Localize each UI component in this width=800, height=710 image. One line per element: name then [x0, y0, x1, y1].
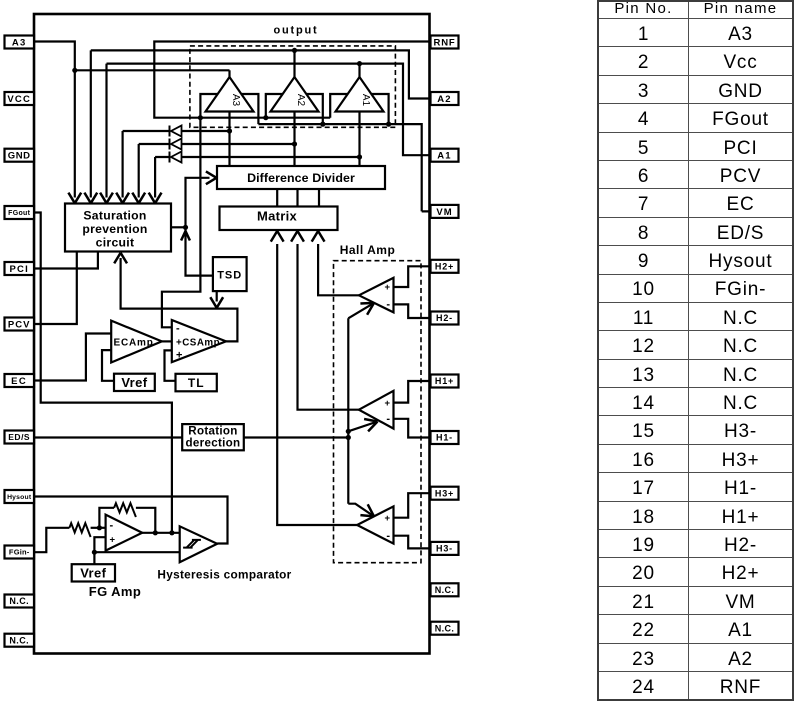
block Matrix [220, 207, 338, 231]
svg-text:derection: derection [186, 436, 241, 449]
resistor FG feedback [114, 503, 136, 517]
wire pin A3 to saturation prevention circuit [34, 42, 75, 198]
pin box FGin- (left) [5, 546, 35, 559]
wire hall amp H1 - input to pin [394, 419, 431, 438]
svg-text:Hall Amp: Hall Amp [340, 243, 396, 257]
pin box N.C. (left) [5, 634, 35, 647]
wire output rail A2: amps to pin A2 [91, 50, 431, 98]
pin box EC (left) [5, 374, 35, 387]
wire hall amp H2 + input to pin [394, 266, 431, 287]
svg-text:H2+: H2+ [435, 262, 454, 272]
wire hall amp H1 output to Matrix [298, 244, 359, 410]
pin box FGout (left) [5, 206, 35, 219]
svg-text:A2: A2 [295, 94, 306, 107]
wire resistor to FG amp inverting input [91, 527, 106, 529]
wire amp A3 side stubs [200, 94, 217, 118]
wire ECAmp lower input to Vref [102, 350, 114, 381]
op-amp hall amp H3 [357, 506, 393, 543]
wire VM bus (lower amp stubs) to pin VM [258, 124, 430, 211]
wire FG amp output to hysteresis comparator [142, 532, 180, 534]
op-amp CSAmp [172, 320, 226, 362]
svg-text:+: + [384, 513, 390, 524]
diode D1 [169, 126, 171, 137]
pin box Hysout (left) [5, 490, 35, 503]
pin box H1+ (right) [431, 375, 459, 388]
wire pin EC to ECAmp input [34, 334, 111, 381]
pin box PCI (left) [5, 262, 35, 275]
svg-text:N.C.: N.C. [435, 623, 455, 633]
svg-text:H1+: H1+ [435, 376, 454, 386]
wire Difference Divider to Matrix 1 [276, 189, 278, 206]
node rotation control H1 branch [346, 429, 351, 434]
svg-text:TL: TL [188, 376, 205, 390]
pin box GND (left) [5, 149, 35, 162]
node diode D3 tap on amp input [357, 154, 362, 159]
svg-text:ECAmp: ECAmp [114, 337, 154, 348]
pin box N.C. (right) [431, 583, 459, 596]
wire RNF sense line to CSAmp inverting input [162, 118, 201, 328]
node FG + input junction [92, 550, 97, 555]
svg-text:+: + [176, 350, 182, 362]
svg-text:H2-: H2- [436, 313, 453, 323]
pin box A3 (left) [5, 36, 35, 49]
wire rail A1 drop to saturation prevention circuit [105, 64, 107, 198]
dashed box around output amps [190, 46, 396, 127]
svg-text:prevention: prevention [82, 222, 147, 236]
block Difference Divider [217, 166, 385, 189]
block TL [176, 374, 217, 392]
svg-text:A2: A2 [437, 94, 452, 105]
svg-text:H3-: H3- [436, 544, 453, 554]
wire RNF rail: pin RNF to RNF bus [154, 42, 430, 118]
wire diode D1 line to saturation prevention circuit [123, 130, 230, 132]
diode D2 [169, 139, 171, 150]
svg-text:output: output [273, 25, 318, 37]
wire FG amp + input to Vref and comparator [94, 537, 179, 564]
pin box H3+ (right) [431, 487, 459, 500]
node saturation output junction [183, 225, 188, 230]
op-amp ECAmp [111, 321, 162, 363]
comparator hysteresis comparator [180, 526, 218, 562]
op-amp FG Amp [106, 515, 143, 551]
wire Difference Divider to Matrix 3 [318, 189, 320, 206]
svg-text:Matrix: Matrix [257, 209, 298, 224]
wire amp A1 input to Difference Divider [358, 112, 360, 167]
wire rotation control into hall amp H2 [348, 303, 374, 318]
svg-text:Saturation: Saturation [83, 209, 146, 223]
wire saturation to pin PCI [34, 252, 98, 269]
wire rotation control into hall amp H1 [348, 422, 377, 432]
wire amp A2 output stem [293, 50, 295, 77]
node diode D2 tap on amp input [292, 141, 297, 146]
svg-text:+: + [384, 398, 390, 409]
svg-text:-: - [386, 530, 390, 542]
wire pin ED/S line to hall amps [34, 436, 348, 438]
svg-text:EC: EC [11, 376, 27, 387]
wire hall amp H3 - input to pin [394, 536, 431, 549]
svg-text:N.C.: N.C. [9, 596, 29, 606]
svg-text:A3: A3 [12, 37, 27, 48]
svg-text:+: + [384, 282, 390, 293]
pin box H2+ (right) [431, 260, 459, 273]
resistor FG input [69, 523, 90, 537]
wire diode D2 line to saturation prevention circuit [139, 143, 295, 145]
pin box ED/S (left) [5, 431, 35, 444]
wire hall amp H2 output to Matrix [318, 244, 359, 295]
wire CSAmp output feedback to saturation prevention circuit [121, 258, 238, 341]
wire output rail A1: amps to pin A1 [107, 64, 431, 156]
op-amp A2 (output amp) [271, 77, 319, 112]
wire hall amp H1 + input to pin [394, 381, 431, 403]
wire pin FGin- to input resistor [34, 528, 69, 552]
pin box N.C. (right) [431, 622, 459, 635]
wire Difference Divider to Matrix 2 [296, 189, 298, 206]
wire amp A3 input to Difference Divider [228, 112, 230, 167]
hysteresis symbol [183, 540, 201, 548]
wire CSAmp lower input to TL [165, 350, 176, 380]
pin box A2 (right) [431, 92, 459, 105]
pin box H1- (right) [431, 431, 459, 444]
svg-text:Hysout: Hysout [7, 494, 32, 501]
node A1 rail junction [357, 61, 362, 66]
pin box H2- (right) [431, 312, 459, 325]
svg-text:FGout: FGout [8, 210, 30, 217]
wire rotation control vertical [347, 318, 349, 503]
pin box VM (right) [431, 205, 459, 218]
svg-text:ED/S: ED/S [8, 432, 30, 442]
svg-text:A1: A1 [360, 94, 371, 107]
op-amp A3 (output amp) [206, 77, 254, 112]
node VM bus A1 stub [386, 122, 391, 127]
pin box VCC (left) [5, 92, 35, 105]
pin box A1 (right) [431, 149, 459, 162]
svg-text:+: + [110, 535, 116, 546]
wire saturation output to junction [171, 226, 186, 228]
wire FG amp feedback right leg [136, 508, 155, 533]
wire amp A1 side stubs [330, 94, 348, 118]
node RNF bus A2 stub [263, 115, 268, 120]
svg-text:Hysteresis comparator: Hysteresis comparator [157, 568, 291, 582]
svg-text:PCV: PCV [8, 319, 31, 330]
op-amp hall amp H2 [359, 278, 394, 313]
op-amp hall amp H1 [359, 391, 394, 429]
wire rotation control into hall amp H3 [348, 504, 374, 517]
svg-text:Difference Divider: Difference Divider [247, 171, 355, 185]
svg-text:TSD: TSD [217, 270, 242, 282]
svg-text:RNF: RNF [434, 37, 456, 48]
svg-text:VM: VM [436, 207, 452, 218]
node A3 rail junction [72, 68, 77, 73]
node FGout junction [169, 530, 174, 535]
block Vref (FG reference) [72, 564, 115, 581]
wire pin Hysout to comparator output [34, 497, 228, 544]
dashed box around hall amps [334, 261, 422, 563]
wire pin FGout to FG amp output [34, 213, 172, 533]
svg-text:H3+: H3+ [435, 488, 454, 498]
wire junction to Difference Divider input [186, 178, 210, 228]
svg-text:FG Amp: FG Amp [89, 584, 141, 599]
wire hall amp H3 + input to pin [394, 493, 431, 518]
svg-text:-: - [386, 413, 390, 425]
wire output rail A3 [75, 69, 230, 71]
node rotation control ED/S junction [346, 435, 351, 440]
wire diode D3 line to saturation prevention circuit [155, 156, 359, 158]
svg-text:-: - [176, 323, 180, 335]
wire hall amp H2 - input to pin [394, 304, 431, 318]
svg-text:GND: GND [8, 151, 31, 162]
IC package outline [34, 14, 430, 654]
svg-text:PCI: PCI [9, 264, 28, 275]
pin box N.C. (left) [5, 595, 35, 608]
svg-text:circuit: circuit [96, 236, 135, 250]
wire amp A3 output stem [228, 70, 230, 77]
svg-text:VCC: VCC [7, 94, 31, 105]
svg-text:-: - [110, 519, 114, 531]
pin box H3- (right) [431, 542, 459, 555]
diode D3 [169, 152, 171, 163]
wire ECAmp output to CSAmp [162, 340, 172, 342]
svg-text:A1: A1 [437, 151, 452, 162]
block Rotation derection [182, 424, 244, 450]
wire amp A1 output stem [358, 64, 360, 77]
wire hall amp H3 output to Matrix [277, 244, 357, 525]
wire rail A2 drop to saturation prevention circuit [90, 50, 92, 197]
node diode D1 tap on amp input [227, 128, 232, 133]
node A2 rail junction [292, 48, 297, 53]
block Vref (EC reference) [114, 374, 155, 391]
svg-text:+CSAmp: +CSAmp [176, 337, 220, 348]
wire amp A2 side stubs [266, 94, 283, 118]
node FG inverting input junction [97, 525, 102, 530]
svg-text:H1-: H1- [436, 433, 453, 443]
wire saturation to pin PCV [34, 252, 77, 325]
svg-text:FGin-: FGin- [9, 548, 30, 557]
node RNF bus A3 stub [198, 115, 203, 120]
svg-text:-: - [386, 299, 390, 311]
pin box RNF (right) [431, 36, 459, 49]
wire amp A2 input to Difference Divider [293, 112, 295, 167]
svg-text:N.C.: N.C. [9, 635, 29, 645]
wire FG amp feedback left leg [99, 508, 114, 528]
block TSD [213, 257, 247, 291]
svg-text:A3: A3 [230, 94, 241, 107]
wire junction down to TSD input [186, 227, 213, 275]
svg-text:Vref: Vref [80, 566, 106, 581]
op-amp A1 (output amp) [336, 77, 384, 112]
node FG feedback junction [153, 530, 158, 535]
node VM bus A2 stub [320, 122, 325, 127]
block saturation prevention circuit [65, 204, 171, 252]
svg-text:Vref: Vref [121, 375, 147, 390]
wire TSD output down to CSAmp feedback line [216, 291, 218, 301]
pin box PCV (left) [5, 318, 35, 331]
svg-text:N.C.: N.C. [435, 585, 455, 595]
